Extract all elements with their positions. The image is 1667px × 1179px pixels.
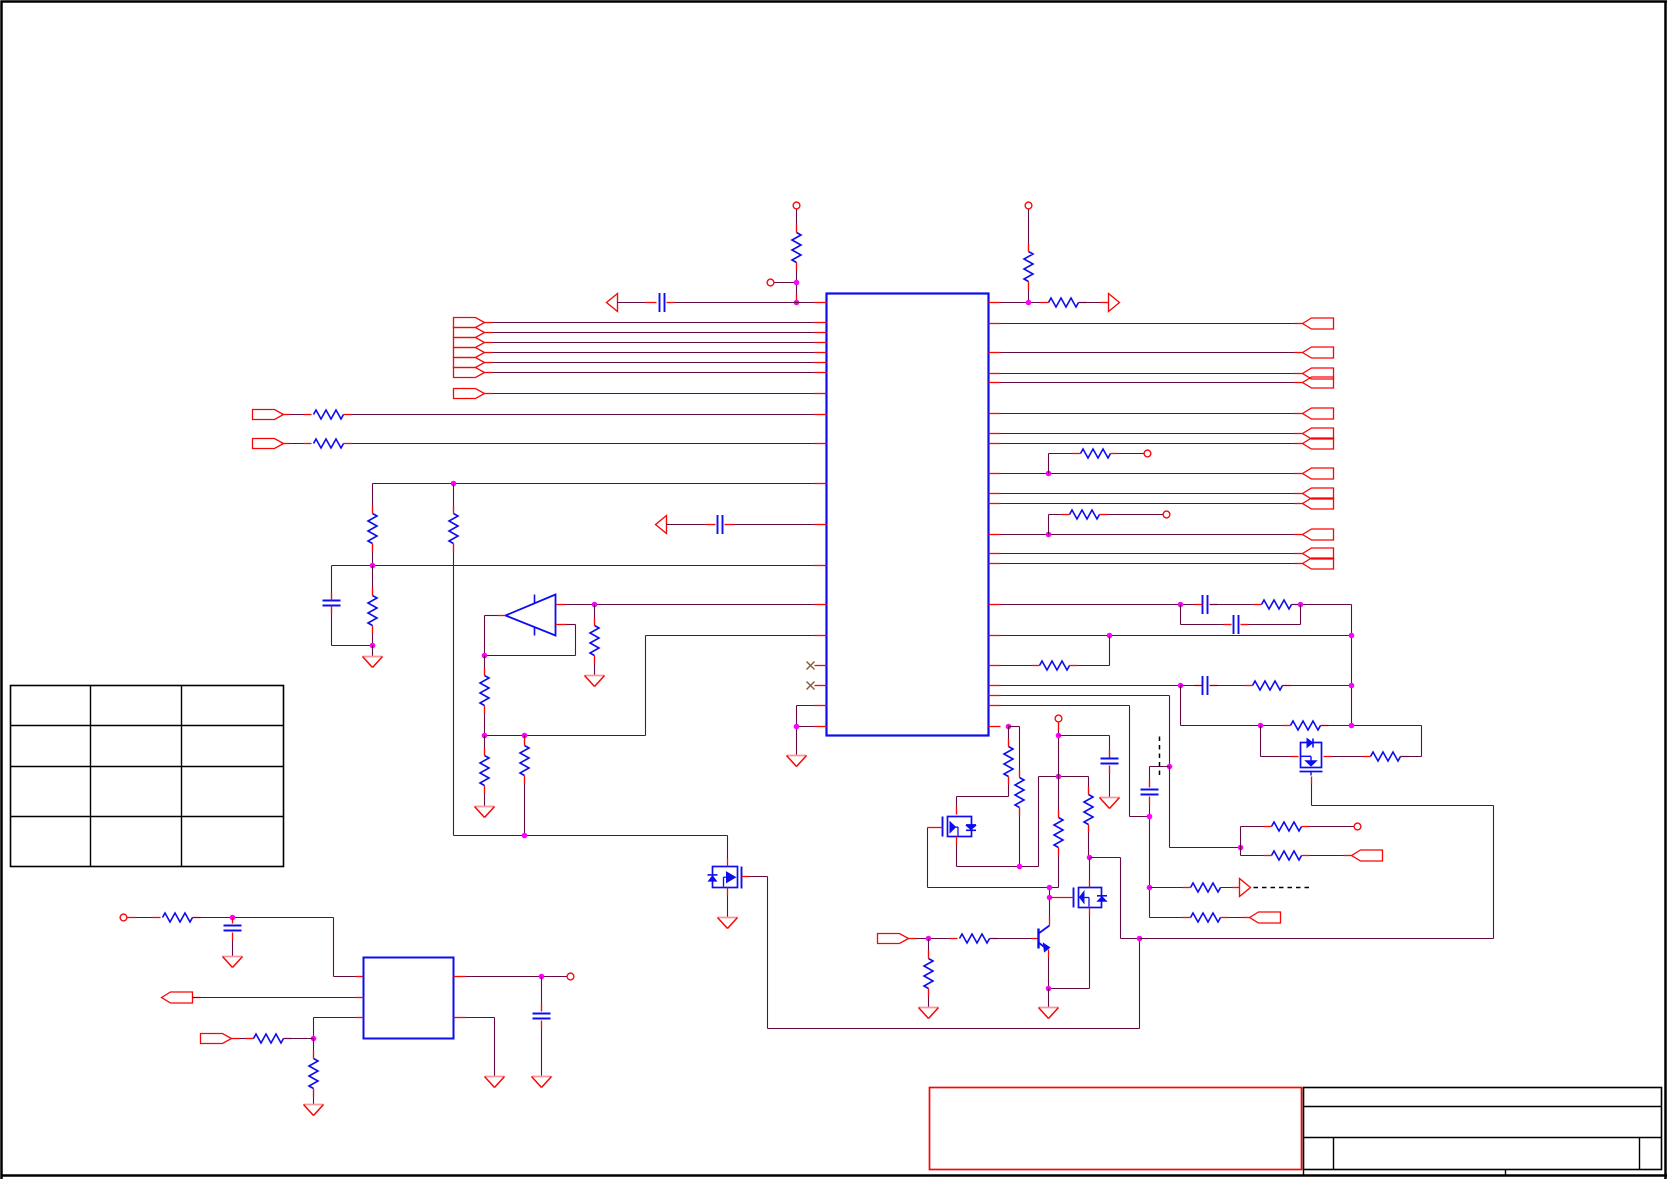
wire Q2 drain right (1090, 858, 1140, 939)
wire C3 to U1 (725, 524, 827, 526)
wire R30 to U2 (193, 918, 364, 977)
resistor R19 (1363, 752, 1422, 761)
node junction J8 (482, 653, 488, 659)
wire Q5 gate (742, 877, 768, 1029)
resistor R7 (449, 484, 458, 836)
wire bottom rail (768, 939, 1140, 1029)
resistor R22 (1050, 810, 1064, 918)
resistor R29 (1150, 913, 1250, 922)
testpoint TP2 (767, 279, 796, 286)
resistor R28 (1150, 883, 1240, 892)
port P4 (253, 410, 284, 420)
wire J35 vertical (1240, 827, 1242, 856)
ports right doubles (1303, 368, 1334, 569)
capacitor C6 (1181, 676, 1251, 695)
node junction J26 (1056, 733, 1062, 739)
node junction J37 (230, 915, 236, 921)
wire C8 down (1149, 797, 1151, 918)
resistor R17 (1245, 681, 1352, 690)
wire P3 to U1 (485, 393, 827, 395)
capacitor C2 (323, 566, 341, 646)
transistor Q3 (1300, 739, 1323, 776)
node junction J31 (1046, 986, 1052, 992)
resistor R5 (314, 439, 344, 448)
wire R5 to U1 (344, 443, 827, 445)
wire J21 to Q3 (1261, 726, 1299, 757)
node junction J17 (1107, 633, 1113, 639)
wire Q3 right (1324, 756, 1369, 758)
wire row y635 (989, 635, 1352, 637)
node junction J36 (1147, 885, 1153, 891)
node junction J27 (1047, 885, 1053, 891)
node junction J38 (311, 1036, 317, 1042)
U1 left pin stubs (815, 303, 827, 727)
wire U2 gnd pin (454, 1018, 495, 1077)
wire Q1 gate (928, 828, 1050, 888)
node junction J32 (1137, 936, 1143, 942)
resistor R32 (309, 1039, 318, 1105)
port bundle PB1 (454, 318, 485, 378)
resistor R6 (368, 484, 377, 566)
port P8 (1352, 850, 1383, 861)
node junction J1 (794, 280, 800, 286)
wire P12 to R31 (232, 1038, 254, 1040)
node junction J20 (1349, 683, 1355, 689)
wire J26 to C7 (1059, 736, 1110, 758)
node junction J39 (539, 974, 545, 980)
wire row y685 (989, 685, 1179, 687)
wire R3 to P2 (1079, 302, 1109, 304)
node junction J35 (1238, 845, 1244, 851)
node junction J13 (1046, 471, 1052, 477)
coupling dashed line D1 (1159, 737, 1161, 777)
wire TP8 to R30 (128, 917, 161, 919)
no-connect pin X1 (807, 662, 815, 670)
U1 right pin stubs (989, 303, 1001, 727)
testpoint TP7 (1354, 823, 1361, 830)
wires PB1 to U1 (485, 323, 827, 373)
node junction J19 (1178, 683, 1184, 689)
revision table (11, 686, 284, 867)
op-amp U3 (506, 595, 556, 636)
wire C1 to U1 (667, 302, 827, 304)
port P10 (1250, 912, 1281, 923)
wire Q2 drain (1089, 858, 1091, 888)
node junction J25 (1056, 774, 1062, 780)
port P1 triangle (607, 294, 618, 312)
resistor R10 (480, 656, 489, 736)
wire Q5 drain (727, 836, 729, 867)
wire pin1 (618, 302, 657, 304)
wire U1 to J3 (989, 302, 1047, 304)
wire J33 left (1150, 767, 1170, 788)
wire Q5 source (727, 888, 729, 918)
resistor R13 (1049, 449, 1144, 474)
wire branch y725 (1181, 686, 1289, 726)
capacitor C10 (533, 977, 551, 1077)
capacitor C7 (1101, 759, 1119, 764)
wire gnd pins (797, 706, 815, 756)
wire J32 right (1140, 938, 1494, 940)
resistor R12 (520, 736, 529, 836)
resistor R11 (480, 736, 489, 807)
resistor R15 (1254, 600, 1300, 609)
notes box (930, 1088, 1302, 1170)
wire C2 to J6 (332, 645, 373, 647)
wire P7 to J30 (909, 938, 958, 940)
node junction J14 (1046, 532, 1052, 538)
node junction J22 (1349, 723, 1355, 729)
wire Q1 source (957, 777, 1039, 867)
node junction J3 (1026, 300, 1032, 306)
wires U1 to right ports (989, 324, 1303, 564)
node junction J30 (926, 936, 932, 942)
resistor R30 (163, 913, 193, 922)
testpoint TP9 (567, 973, 574, 980)
wire row y565 (332, 565, 827, 567)
port P5 (253, 439, 284, 449)
node junction J21 (1258, 723, 1264, 729)
ground GND11 (532, 1077, 552, 1088)
node junction J2 (794, 300, 800, 306)
node junction J7 (592, 602, 598, 608)
ports right singles (1303, 318, 1334, 540)
node junction J23 (1006, 724, 1012, 730)
port P12 (201, 1034, 232, 1044)
wire row y604 (989, 604, 1203, 606)
wire R15 right (1292, 605, 1352, 726)
resistor R3 (1041, 298, 1087, 307)
node junction J6 (370, 643, 376, 649)
resistor R16 row y665 (989, 636, 1110, 671)
transistor Q5 (708, 867, 742, 889)
ground GND5 (1100, 766, 1120, 809)
wire Q4 emitter (1048, 950, 1050, 989)
wire U2 out (454, 976, 567, 978)
resistor R21 (1009, 727, 1025, 867)
wire P5 to R5 (282, 443, 312, 445)
resistor R8 (368, 566, 377, 646)
testpoint TP6 (1055, 715, 1062, 722)
resistor R4 (314, 410, 344, 419)
testpoint TP4 (1144, 450, 1151, 457)
capacitor C5 branch (1181, 605, 1301, 635)
wire R31 to J38 (284, 1038, 314, 1040)
wire Q3 gate route (1312, 777, 1494, 939)
wire row y695 (989, 696, 1170, 767)
resistor R23 (1084, 777, 1093, 858)
testpoint TP8 (120, 914, 127, 921)
testpoint TP5 (1163, 511, 1170, 518)
node junction J4 (451, 481, 457, 487)
coupling dashed line D2 (1254, 887, 1313, 889)
ground GND12 (485, 1077, 505, 1088)
resistor R2 pull-up (1024, 210, 1033, 303)
ground GND6 (919, 1008, 939, 1019)
node junction J11 (522, 833, 528, 839)
ground GND1 (363, 646, 383, 668)
resistor R27 (1241, 851, 1352, 860)
ground GND8 (718, 918, 738, 929)
node junction J16 (1298, 602, 1304, 608)
capacitor C9 (224, 918, 242, 957)
resistor R18 (1283, 721, 1422, 757)
resistor R26 (1241, 822, 1354, 831)
IC U2 regulator (364, 958, 454, 1039)
ground GND10 (304, 1105, 324, 1116)
ground GND7 (1039, 989, 1059, 1019)
wire U2 pin3 (314, 1018, 364, 1039)
node junction J5 (370, 563, 376, 569)
port P11 (162, 992, 193, 1003)
node junction J24 (1017, 864, 1023, 870)
capacitor C3 (718, 515, 723, 534)
wire bottom row y835 (454, 835, 728, 837)
IC U1 (827, 294, 989, 736)
title block (1304, 1088, 1662, 1176)
capacitor C4 (1195, 595, 1218, 614)
resistor R14 (1049, 510, 1163, 535)
ground GND9 (223, 957, 243, 968)
no-connect pin X2 (807, 682, 815, 690)
port P3 (454, 389, 485, 399)
testpoint TP1 (793, 202, 800, 209)
port P7 (878, 934, 909, 944)
wire TP6 down (1058, 723, 1060, 818)
wire P4 to R4 (282, 414, 312, 416)
wire U3 out feedback (485, 616, 576, 656)
capacitor C1 (660, 293, 665, 312)
wire J9 row (485, 636, 827, 736)
node junction J10 (522, 733, 528, 739)
node junction J15 (1178, 602, 1184, 608)
wire row y705 (989, 706, 1150, 817)
port P9 triangle (1240, 879, 1251, 897)
resistor R9 (590, 605, 599, 676)
wire J33 down (1170, 767, 1241, 848)
resistor R20 (957, 727, 1014, 815)
wire row y483 (373, 483, 827, 485)
port P6 triangle (656, 516, 667, 534)
resistor R1 pull-up (792, 210, 801, 303)
ground GND3 (475, 807, 495, 818)
ground GND2 (585, 676, 605, 687)
wire P6 to C3 (667, 524, 716, 526)
node junction J12 (794, 724, 800, 730)
node junction J28 (1047, 895, 1053, 901)
wire P11 to U2 (193, 997, 364, 999)
transistor Q1 (943, 817, 977, 837)
port P2 triangle (1109, 294, 1120, 312)
node junction J18 (1349, 633, 1355, 639)
wire Q2 gate (1050, 897, 1074, 899)
wire U3 +input row (557, 604, 827, 606)
wire Q2 source (1049, 908, 1090, 989)
node junction J34 (1147, 814, 1153, 820)
node junction J29 (1087, 855, 1093, 861)
resistor R24 (960, 934, 1038, 943)
node junction J33 (1167, 764, 1173, 770)
resistor R31 (254, 1034, 284, 1043)
node junction J9 (482, 733, 488, 739)
resistor R25 (924, 939, 933, 1008)
testpoint TP3 (1025, 202, 1032, 209)
transistor Q2 (1074, 888, 1108, 908)
transistor Q4 NPN (1039, 926, 1050, 952)
wire Q4 collector (1049, 918, 1051, 926)
wire R4 to U1 (344, 414, 827, 416)
wire row y776 (1039, 776, 1089, 778)
capacitor C8 (1141, 790, 1159, 795)
ground GND4 (787, 756, 807, 767)
wire C4 to R15 (1210, 604, 1260, 606)
